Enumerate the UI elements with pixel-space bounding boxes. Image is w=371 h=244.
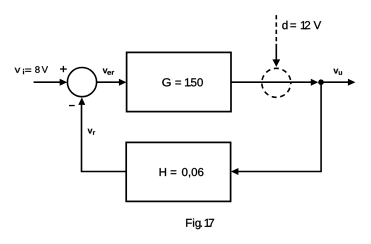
arrowhead of output vu — [348, 79, 356, 86]
label vi = 8 V : 8 — [35, 66, 39, 73]
label d = 12 V : equals — [290, 23, 296, 27]
label vi = 8 V : subscript i — [23, 69, 24, 70]
wire: summing junction to block G — [97, 81, 120, 83]
label ver : v — [103, 68, 108, 73]
block G (G = 150) — [127, 52, 231, 111]
block G label : 150 — [185, 78, 203, 86]
wire: output line vu — [321, 81, 349, 83]
minus sign at summing junction — [69, 105, 75, 106]
plus sign at summing junction — [60, 66, 67, 72]
digit 1 base serif — [188, 85, 191, 86]
arrowhead into output node — [311, 79, 319, 86]
wire: input line into summing junction — [34, 81, 61, 83]
caption Fig.17 : 7 — [209, 219, 214, 227]
digit 1 base serif — [207, 226, 210, 227]
node: output junction dot — [318, 79, 324, 85]
arrowhead of disturbance into circle — [272, 59, 280, 67]
block H label : 0,06 — [182, 168, 203, 178]
block H (H = 0,06) — [126, 142, 230, 201]
label d = 12 V : d — [282, 21, 287, 29]
wire: feedback tap down from output node and into block H — [238, 82, 322, 171]
wire: block G output through disturbance node to output junction — [231, 81, 312, 83]
label vu : subscript u — [339, 71, 342, 75]
block H label : H — [160, 168, 166, 176]
arrowhead into block G — [119, 79, 127, 86]
label vi = 8 V : V unit — [42, 66, 48, 73]
wire: block H output left and up to summing junction — [82, 105, 127, 172]
caption Fig.17 : period — [201, 226, 202, 227]
digit 1 base serif — [304, 28, 307, 29]
caption Fig.17 — [186, 218, 200, 229]
caption Fig.17 : 1 — [205, 219, 210, 227]
label vr : subscript r — [93, 131, 95, 135]
wire: dashed disturbance line d (dashed part) — [275, 15, 277, 41]
label vr : v — [88, 129, 93, 134]
wire: dashed disturbance line d (solid tail) — [275, 44, 277, 60]
arrowhead into block H — [231, 168, 239, 175]
arrowhead into summing junction — [60, 79, 67, 86]
label vu : v — [333, 69, 338, 74]
disturbance injection circle (dashed) — [262, 68, 291, 97]
label vi = 8 V : v — [15, 68, 21, 73]
label d = 12 V : 1 — [301, 21, 306, 29]
label vi = 8 V : equals — [25, 69, 31, 72]
block G label : equals — [175, 81, 181, 85]
label ver : subscript er — [107, 71, 114, 75]
arrowhead into summing junction bottom — [78, 97, 85, 105]
summing junction circle — [67, 68, 96, 97]
block G label : G — [162, 78, 170, 86]
label d = 12 V : 2 — [305, 21, 310, 29]
block H label : equals — [171, 170, 177, 174]
label d = 12 V : V unit — [314, 21, 322, 29]
